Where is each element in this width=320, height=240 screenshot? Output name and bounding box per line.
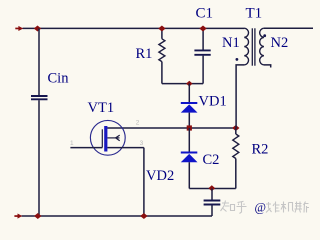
capacitor C2 <box>204 189 221 217</box>
node C2 top junction <box>208 185 215 191</box>
watermark zhihu <box>221 201 247 214</box>
wire R1-C1 bottom rail <box>162 83 203 85</box>
node R1 top junction <box>158 25 165 31</box>
node bottom-left junction <box>34 213 41 219</box>
svg-text:VD2: VD2 <box>146 168 174 184</box>
wire N2 top lead to right edge <box>264 27 313 29</box>
node top-left junction <box>34 25 41 31</box>
svg-text:T1: T1 <box>246 6 263 22</box>
svg-text:3: 3 <box>140 140 144 147</box>
wire N1 bottom lead <box>236 65 244 128</box>
wire source lead down <box>143 148 145 216</box>
wire middle rail (drain net) <box>107 127 236 129</box>
svg-text:VT1: VT1 <box>88 100 115 116</box>
机 <box>281 202 294 213</box>
wire bottom rail <box>22 215 213 217</box>
transformer T1 primary N1 <box>244 28 248 65</box>
transistor Q VT1 (NMOS) <box>70 120 143 155</box>
svg-text:C2: C2 <box>203 152 220 168</box>
arrow bottom-left input <box>14 214 22 219</box>
svg-text:2: 2 <box>136 120 140 127</box>
知 <box>221 201 235 212</box>
wire Cin top lead <box>38 28 40 95</box>
diode VD1 <box>181 84 198 128</box>
svg-text:N2: N2 <box>271 35 289 51</box>
wire top rail <box>23 27 245 29</box>
diode VD2 <box>181 128 198 189</box>
svg-text:R1: R1 <box>136 46 153 62</box>
node R2-N1 junction <box>232 125 239 131</box>
node VD junction (square) <box>187 125 192 130</box>
svg-text:R2: R2 <box>252 142 269 158</box>
resistor R2 <box>233 128 239 189</box>
svg-text:@: @ <box>255 201 267 215</box>
transformer core <box>251 28 253 65</box>
arrow top-left input <box>15 26 23 31</box>
svg-text:C1: C1 <box>196 6 214 22</box>
wire Cin bottom lead <box>38 100 40 216</box>
capacitor C1 <box>194 28 210 83</box>
svg-text:1: 1 <box>70 140 74 147</box>
node N2 phase dot <box>263 34 266 37</box>
svg-text:Cin: Cin <box>48 71 70 87</box>
svg-text:N1: N1 <box>222 35 240 51</box>
wire N2 bottom lead <box>264 65 271 68</box>
node N1 phase dot <box>236 58 239 61</box>
node bottom source junction <box>140 213 147 219</box>
capacitor Cin <box>31 96 48 99</box>
transformer secondary N2 <box>260 28 264 65</box>
svg-text:VD1: VD1 <box>199 94 227 110</box>
wire lower mid rail <box>189 188 236 190</box>
乎 <box>237 201 247 213</box>
炸 <box>266 202 280 213</box>
斯 <box>295 202 310 213</box>
node C1 top junction <box>199 25 206 31</box>
resistor R1 <box>159 28 165 83</box>
node VD1 top junction <box>186 81 192 87</box>
